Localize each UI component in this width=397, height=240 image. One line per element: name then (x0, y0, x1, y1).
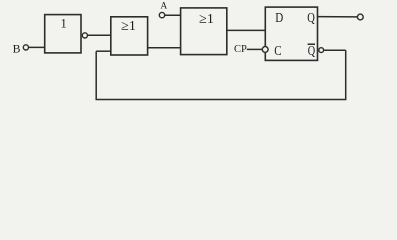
svg-text:A: A (160, 1, 167, 11)
svg-text:Q: Q (308, 43, 316, 58)
svg-text:C: C (274, 43, 281, 58)
svg-text:1: 1 (60, 17, 66, 31)
svg-text:Q: Q (307, 10, 315, 25)
svg-text:B: B (13, 42, 21, 56)
svg-text:D: D (275, 10, 283, 25)
svg-text:CP: CP (234, 44, 247, 55)
svg-text:≥1: ≥1 (121, 19, 136, 34)
svg-text:≥1: ≥1 (199, 12, 214, 27)
